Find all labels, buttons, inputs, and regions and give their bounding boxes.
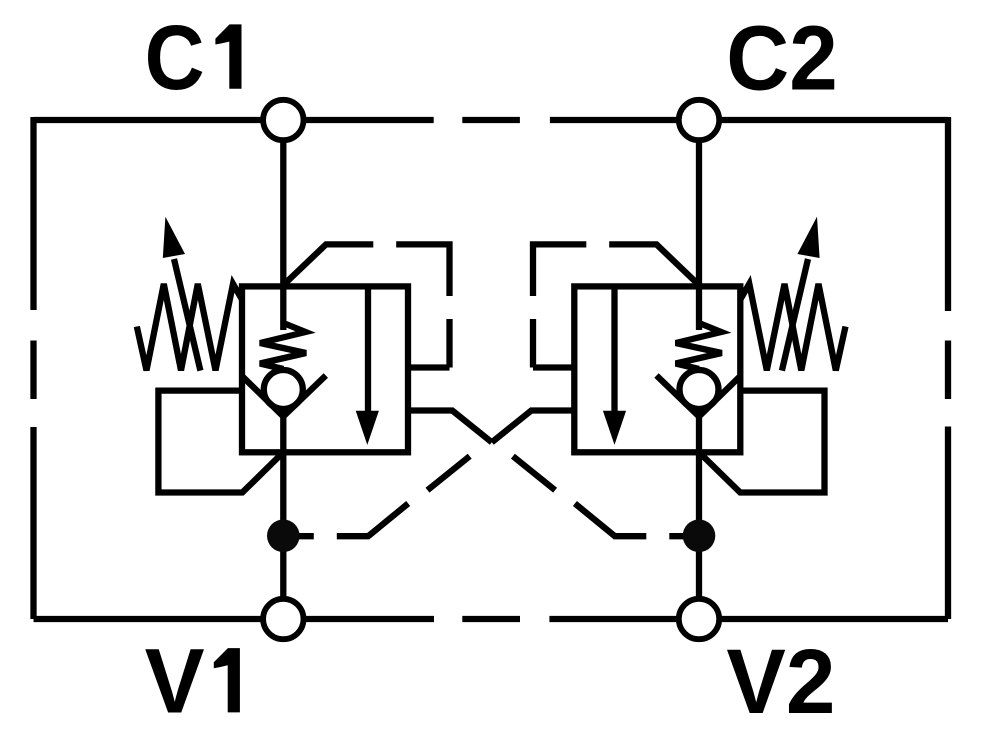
wire: CB2 seat to V2 vertical line: [696, 417, 702, 620]
wire: CB2 pilot line solid part (diagonal from C2 line): [609, 244, 697, 283]
wire: CB1 lower stub to crossover: [408, 411, 492, 443]
wire: CB2 pilot line dashed vertical: [530, 319, 536, 368]
wire: CB1 seat to V1 vertical line: [280, 417, 286, 620]
valve CB2 body square: [574, 286, 740, 452]
valve CB1 adjustable spring: [137, 284, 242, 371]
wire: crossover dashed line to V2 dot (from CB1 stub): [513, 456, 685, 536]
valve CB2 check ball: [680, 370, 719, 409]
valve CB2 adjustable spring: [740, 284, 845, 371]
valve CB2 adjustment arrow: [782, 259, 808, 371]
wire: CB1 pilot upper stub: [408, 364, 450, 370]
wire: enclosure boundary bottom edge: [34, 616, 949, 622]
wire: C1 to valve CB1 vertical line: [280, 120, 286, 330]
valve CB1 check seat: [243, 376, 326, 417]
wire: CB1 pilot line dashed vertical: [446, 319, 452, 368]
svg-text:C2: C2: [726, 8, 838, 110]
valve CB2 check seat: [657, 376, 740, 417]
valve CB2 check spring: [676, 323, 722, 369]
valve CB1 relief flow arrow: [365, 289, 371, 413]
wire: CB2 pilot upper stub: [533, 364, 574, 370]
wire: CB1 pilot line solid part (diagonal from C1 line): [285, 244, 373, 283]
svg-text:C: C: [145, 7, 205, 109]
port C2: [679, 100, 719, 140]
valve CB1 check ball: [264, 370, 303, 409]
wire: enclosure boundary top edge: [34, 117, 949, 123]
valve CB1 body square: [242, 286, 408, 452]
wire: crossover dashed line to V1 dot (from CB2 stub): [298, 456, 470, 536]
valve CB2 relief flow arrow: [611, 289, 617, 413]
wire: enclosure boundary left edge: [30, 117, 36, 619]
wire: enclosure boundary right edge: [945, 117, 951, 619]
wire: CB2 lower stub to crossover: [492, 411, 575, 443]
wire: CB1 drain loop: [158, 391, 283, 493]
node: junction dot on V1 line: [267, 520, 300, 553]
svg-text:V2: V2: [726, 631, 835, 732]
wire: CB1 pilot line dashed elbow: [396, 244, 449, 296]
node: junction dot on V2 line: [683, 520, 716, 553]
valve CB1 adjustment arrow: [174, 259, 200, 371]
port V2: [679, 599, 719, 639]
wire: C2 to valve CB2 vertical line: [696, 120, 702, 330]
port V1: [263, 599, 303, 639]
port C1: [263, 100, 303, 140]
wire: CB2 drain loop: [699, 391, 825, 493]
valve CB1 check spring: [260, 323, 306, 369]
svg-text:V: V: [145, 631, 205, 732]
wire: CB2 pilot line dashed elbow: [533, 244, 586, 296]
